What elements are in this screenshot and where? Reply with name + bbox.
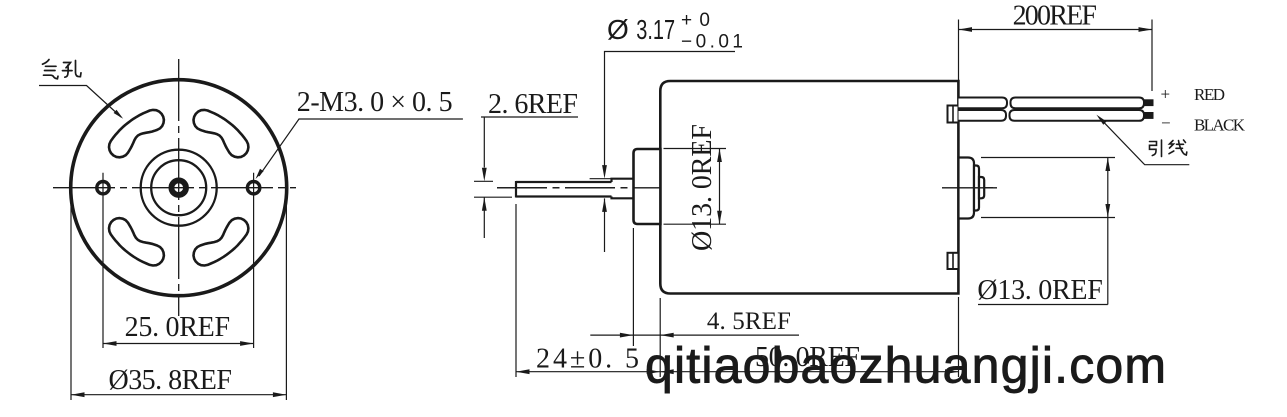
- vent slot lower-left: [109, 218, 164, 265]
- svg-text:RED: RED: [1194, 85, 1225, 104]
- end cap bearing bump 3: [979, 177, 984, 198]
- vent slot upper-right: [194, 110, 249, 157]
- svg-text:−0.01: −0.01: [681, 32, 743, 53]
- terminal tab top: [948, 106, 959, 123]
- dimension Ø3.17 leader: [605, 52, 736, 168]
- vent slot upper-left: [109, 110, 164, 157]
- svg-text:Ø35. 8REF: Ø35. 8REF: [109, 365, 232, 396]
- label 引线 (lead wires): [1150, 140, 1187, 157]
- side view horizontal centerline: [497, 187, 997, 189]
- shaft thin section: [516, 181, 612, 183]
- front view vertical centerline: [178, 59, 180, 316]
- motor body: [660, 81, 958, 294]
- wire 2 (black lead) left piece: [959, 110, 1007, 121]
- front view horizontal centerline: [53, 187, 296, 189]
- side view centerline over shaft: [497, 187, 660, 189]
- svg-text:4. 5REF: 4. 5REF: [707, 308, 791, 335]
- dimension Ø13.0REF left (boss) extension lines: [664, 148, 727, 150]
- dimension line 200REF: [959, 29, 1153, 31]
- svg-text:Ø: Ø: [607, 14, 629, 45]
- extension line body left: [659, 298, 661, 377]
- svg-text:200REF: 200REF: [1013, 0, 1097, 31]
- dimension 200REF extension right: [1151, 20, 1153, 92]
- motor end cap outer circle: [71, 80, 287, 296]
- dimension line 25.0REF: [103, 343, 254, 345]
- svg-text:Ø13. 0REF: Ø13. 0REF: [687, 124, 718, 251]
- leader line for 2-M3: [259, 119, 463, 176]
- dimension 200REF extension left: [958, 20, 960, 81]
- wire 1 (red lead) left piece: [959, 98, 1008, 109]
- terminal tab bottom: [948, 253, 959, 269]
- svg-text:Ø13. 0REF: Ø13. 0REF: [977, 275, 1102, 306]
- bearing boss circle inner: [151, 160, 206, 215]
- svg-text:3.17: 3.17: [636, 14, 675, 45]
- bearing boss circle outer: [141, 150, 217, 226]
- leader line for 引线: [1099, 117, 1189, 164]
- end cap bearing bump 2: [974, 166, 979, 211]
- svg-text:2. 6REF: 2. 6REF: [488, 89, 578, 120]
- wire 1 tip connector: [1144, 99, 1154, 106]
- right mounting hole centerline: [253, 173, 255, 348]
- wire 2 right piece: [1010, 110, 1145, 121]
- dimension line 4.5REF: [590, 334, 799, 336]
- end cap bearing bump 1: [959, 158, 975, 219]
- svg-text:25. 0REF: 25. 0REF: [125, 312, 231, 343]
- right mounting hole: [247, 182, 259, 194]
- leader line for 气孔: [39, 86, 121, 118]
- wire 1 right piece: [1011, 98, 1145, 109]
- bushing boss: [634, 149, 661, 224]
- left mounting hole centerline: [102, 173, 104, 348]
- vent slot lower-right: [194, 218, 249, 265]
- shaft thick section (Ø3.17): [612, 179, 634, 182]
- dimension line 35.8: [71, 394, 286, 396]
- wire 2 tip connector: [1144, 112, 1154, 119]
- extension line left for 35.8: [70, 205, 72, 400]
- extension line right for 35.8: [285, 205, 287, 400]
- dimension line Ø13.0REF left: [719, 149, 721, 225]
- svg-text:−: −: [1161, 114, 1171, 133]
- svg-text:BLACK: BLACK: [1194, 116, 1246, 135]
- svg-text:2-M3. 0 × 0. 5: 2-M3. 0 × 0. 5: [297, 87, 453, 118]
- centerline through end cap: [942, 187, 993, 189]
- left mounting hole: [97, 182, 109, 194]
- dimension line Ø13.0REF right: [1107, 158, 1109, 218]
- svg-text:+: +: [1161, 85, 1171, 104]
- dimension Ø13.0REF right extension lines: [981, 157, 1115, 159]
- dimension line 24±0.5 and 50.0REF: [516, 371, 959, 373]
- svg-text:qitiaobaozhuangji.com: qitiaobaozhuangji.com: [645, 337, 1166, 393]
- shaft section (thick ring): [171, 180, 186, 195]
- extension line shaft tip: [515, 204, 517, 377]
- extension line boss left: [632, 228, 634, 346]
- label 气孔 (vent hole): [43, 60, 82, 79]
- extension line body right: [958, 297, 960, 377]
